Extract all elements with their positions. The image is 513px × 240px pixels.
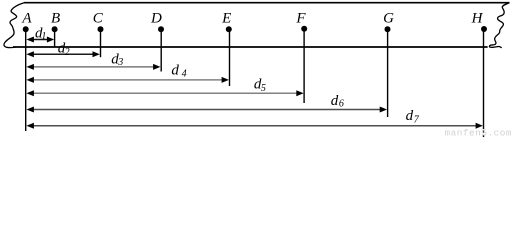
- svg-text:H: H: [471, 11, 484, 27]
- point H stem wire (solid part): [483, 29, 485, 129]
- point A stem wire: [25, 29, 27, 131]
- point B dot: [52, 26, 58, 32]
- point D dot: [158, 26, 164, 32]
- distance arrow d4 (A to E): [26, 77, 229, 83]
- point H stem wire (dashed bottom): [483, 131, 485, 138]
- svg-text:A: A: [21, 11, 32, 27]
- svg-text:d: d: [406, 108, 414, 124]
- main horizontal line: [13, 46, 488, 48]
- top border line: [24, 2, 510, 4]
- svg-text:d: d: [171, 62, 179, 78]
- distance arrow d2 (A to C): [26, 51, 99, 57]
- point E dot: [226, 26, 232, 32]
- distance arrow d7 (A to H): [26, 123, 483, 129]
- point F stem wire: [303, 29, 305, 103]
- point C stem wire: [100, 29, 102, 57]
- svg-text:1: 1: [41, 31, 46, 42]
- svg-text:C: C: [93, 11, 104, 27]
- svg-text:6: 6: [339, 98, 344, 109]
- distance arrow d1 (A to B): [26, 37, 54, 43]
- svg-text:F: F: [295, 11, 306, 27]
- distance arrow d3 (A to D): [26, 64, 160, 70]
- right torn-edge squiggle: [489, 3, 509, 48]
- svg-text:3: 3: [117, 57, 123, 68]
- point B stem wire: [54, 29, 56, 47]
- point C dot: [98, 26, 104, 32]
- point E stem wire: [229, 29, 231, 86]
- point G stem wire: [387, 29, 389, 117]
- svg-text:manfen5.com: manfen5.com: [445, 128, 512, 139]
- point D stem wire: [160, 29, 162, 71]
- svg-text:D: D: [150, 11, 162, 27]
- svg-text:G: G: [383, 11, 394, 27]
- svg-text:5: 5: [261, 83, 266, 94]
- distance arrow d6 (A to G): [26, 107, 387, 113]
- point G dot: [385, 26, 391, 32]
- left torn-edge squiggle: [4, 3, 24, 48]
- point F dot: [301, 26, 307, 32]
- point A dot: [23, 26, 29, 32]
- svg-text:d: d: [331, 93, 339, 109]
- svg-text:E: E: [221, 11, 231, 27]
- svg-text:4: 4: [182, 69, 187, 80]
- distance arrow d5 (A to F): [26, 90, 303, 96]
- point H dot: [481, 26, 487, 32]
- svg-text:B: B: [51, 11, 60, 27]
- svg-text:2: 2: [65, 47, 70, 58]
